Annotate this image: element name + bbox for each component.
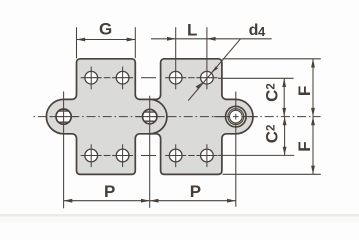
svg-text:P: P: [190, 182, 201, 201]
svg-text:4: 4: [258, 24, 266, 39]
svg-text:d: d: [249, 22, 259, 39]
svg-text:G: G: [99, 20, 112, 39]
svg-text:F: F: [295, 141, 314, 151]
svg-text:L: L: [187, 20, 197, 39]
svg-text:F: F: [295, 86, 314, 96]
svg-text:P: P: [104, 182, 115, 201]
